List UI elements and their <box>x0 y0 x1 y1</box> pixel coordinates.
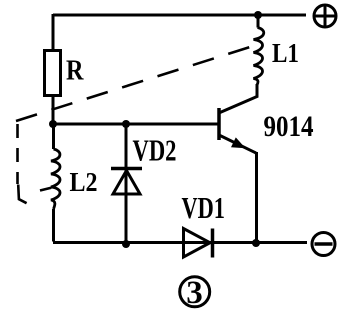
svg-text:R: R <box>66 55 84 87</box>
label VD1 <box>182 190 226 225</box>
negative terminal <box>312 233 335 256</box>
transistor Q1 base bar <box>217 108 221 140</box>
inductor L1 <box>254 28 264 86</box>
coupling dashed end dash <box>40 188 51 191</box>
resistor R <box>45 51 61 96</box>
figure number 3 <box>180 275 210 311</box>
wire R bottom lead <box>52 96 55 125</box>
label L2 <box>70 166 98 197</box>
diode VD2 <box>111 169 142 195</box>
coupling dashed diagonal <box>16 47 250 121</box>
wire top rail <box>53 14 306 17</box>
svg-text:L2: L2 <box>70 166 98 197</box>
diode VD1 <box>184 229 213 258</box>
svg-text:9014: 9014 <box>264 110 314 143</box>
transistor Q1 collector lead <box>220 84 257 113</box>
label L1 <box>272 37 299 68</box>
node A junction dot <box>49 120 57 128</box>
wire L2 bottom lead <box>52 209 55 242</box>
node D junction dot <box>252 239 260 247</box>
coupling dashed corner <box>18 185 26 204</box>
wire VD2 top lead <box>125 124 128 243</box>
label VD2 <box>133 133 177 168</box>
wire L2 top lead <box>52 124 55 149</box>
svg-text:3: 3 <box>186 275 203 311</box>
node B junction dot <box>122 120 130 128</box>
node E junction dot <box>254 11 262 19</box>
wire bottom rail <box>53 241 307 244</box>
wire R top lead <box>52 14 55 50</box>
wire L1 top lead <box>257 15 260 28</box>
svg-text:L1: L1 <box>272 37 299 68</box>
positive terminal <box>314 5 336 27</box>
label 9014 <box>264 110 314 143</box>
svg-text:VD2: VD2 <box>133 133 177 168</box>
coupling dashed vertical <box>16 124 19 184</box>
inductor L2 <box>51 149 60 209</box>
node C junction dot <box>122 240 130 248</box>
transistor Q1 emitter lead with arrow <box>220 136 257 243</box>
wire base rail <box>53 123 218 126</box>
label R <box>66 55 84 87</box>
svg-text:VD1: VD1 <box>182 190 226 225</box>
